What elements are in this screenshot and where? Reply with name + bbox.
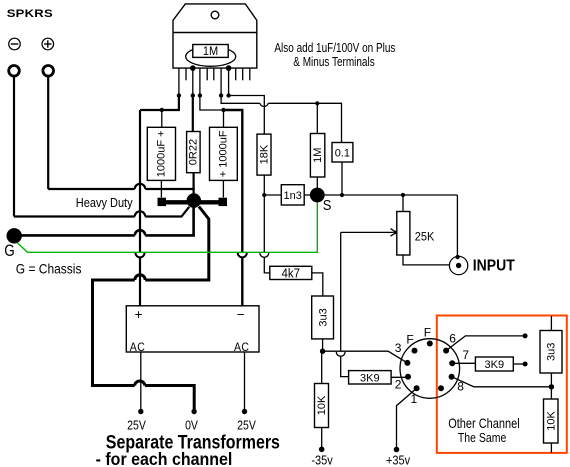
wire 3u3 right top stub — [550, 316, 552, 331]
svg-text:+: + — [135, 307, 143, 322]
terminal 3K9 right dot — [523, 362, 528, 367]
capacitor 1n3 box — [281, 185, 304, 205]
svg-text:3u3: 3u3 — [546, 343, 558, 361]
junction 1000uF tap — [160, 108, 164, 112]
svg-text:AC: AC — [130, 341, 145, 354]
green chassis wire — [17, 202, 317, 253]
socket pin right 7 — [449, 360, 455, 366]
svg-text:−: − — [237, 307, 245, 322]
wire 3u3 right bottom — [550, 373, 552, 399]
speaker plus polarity symbol — [42, 38, 54, 50]
pot wiper arrowhead — [391, 229, 397, 237]
svg-text:SPKRS: SPKRS — [7, 7, 53, 20]
svg-text:7: 7 — [462, 348, 469, 362]
socket pin upper-right 6 — [443, 348, 449, 354]
speaker minus polarity symbol — [9, 38, 21, 50]
svg-text:18K: 18K — [258, 144, 270, 164]
capacitor C2 +1000uF box — [210, 127, 238, 180]
wire pot bottom to input — [403, 255, 450, 265]
wire junction down to 4k7 — [264, 195, 270, 273]
terminal 25V left dot — [138, 409, 143, 414]
socket pin lower-left 2 — [405, 374, 411, 380]
svg-text:Other Channel: Other Channel — [448, 416, 519, 431]
svg-text:1M: 1M — [312, 148, 324, 163]
junction feedback left pin — [190, 65, 196, 71]
output node big junction — [187, 193, 202, 208]
IC pin 7 wire — [220, 68, 222, 95]
input jack top junction — [455, 255, 459, 259]
svg-text:Heavy Duty: Heavy Duty — [76, 195, 133, 210]
svg-text:3: 3 — [395, 341, 402, 355]
resistor 3K9 right box — [475, 357, 513, 371]
node S big junction — [310, 188, 325, 203]
socket pin upper-left F — [412, 348, 418, 354]
wire hop wiper line under grid wire — [336, 352, 345, 356]
wire spkr minus vertical — [13, 77, 15, 217]
socket pin left 3 — [404, 360, 410, 366]
bus bar right end block — [219, 198, 228, 206]
wire 10K bottom to -35v — [321, 428, 323, 450]
terminal 0V dot — [191, 409, 196, 414]
junction 0.1 bottom — [340, 193, 344, 197]
svg-text:S: S — [323, 196, 332, 213]
wire pin 7 to 3K9 right — [452, 362, 475, 364]
wire AC right down to 25V — [244, 352, 246, 412]
junction pin3 — [191, 93, 195, 97]
resistor R-feedback 1M box — [193, 45, 228, 58]
heavy duty bus bar — [159, 200, 227, 204]
input jack center dot — [456, 263, 461, 268]
capacitor 3u3 left box — [312, 296, 334, 339]
wire S node to input column — [317, 194, 457, 196]
junction pot top — [401, 193, 405, 197]
junction right column — [549, 384, 554, 389]
wire junction to 1n3 — [264, 194, 281, 196]
op-amp IC package outline — [173, 4, 257, 68]
wire +1000uF top tap — [223, 110, 225, 127]
wire hop 18K-4k7 under green — [260, 253, 269, 257]
junction pin7 — [219, 93, 223, 97]
svg-text:F: F — [424, 326, 431, 340]
wire 3u3 bottom to junction — [322, 339, 324, 351]
wire 1M top — [316, 103, 318, 133]
wire 0.1 bottom — [341, 162, 343, 195]
wire G chassis horizontal — [14, 234, 195, 237]
junction feedback right pin — [226, 65, 232, 71]
svg-text:& Minus Terminals: & Minus Terminals — [293, 56, 375, 69]
resistor 4k7 box — [270, 266, 312, 279]
resistor 3K9 left box — [349, 371, 392, 384]
wire output node down to G wire — [192, 207, 195, 236]
svg-text:3K9: 3K9 — [485, 359, 505, 371]
terminal 25V right dot — [242, 409, 247, 414]
wire 3K9 to pin 2 — [391, 376, 408, 378]
node G chassis dot — [7, 228, 22, 243]
svg-text:+ 1000uF: + 1000uF — [218, 130, 230, 177]
svg-text:3u3: 3u3 — [317, 308, 329, 326]
svg-text:10K: 10K — [545, 411, 557, 431]
svg-text:1M: 1M — [203, 46, 218, 59]
capacitor C1 1000uF box — [147, 127, 175, 180]
socket pin bottom-left 1 — [414, 385, 420, 391]
svg-text:0.1: 0.1 — [335, 147, 350, 159]
wire 10K right bottom stub — [550, 443, 552, 453]
wire hop ground bus over +rail — [135, 275, 145, 280]
resistor 10K left box — [315, 384, 329, 428]
wire spkr minus horizontal to output node — [14, 207, 189, 217]
wire hop G wire over +rail — [135, 230, 145, 235]
tube socket circle — [400, 339, 460, 399]
svg-text:-35v: -35v — [311, 453, 332, 467]
wire grid node down to 10K — [321, 351, 323, 383]
svg-text:Also add 1uF/100V on Plus: Also add 1uF/100V on Plus — [274, 42, 395, 55]
wire pin1 down-left to +rail corner — [140, 96, 179, 111]
junction pin4 — [198, 93, 202, 97]
terminal +35v dot — [394, 447, 400, 453]
wire 3K9 right out — [513, 363, 525, 365]
wire spkr plus horizontal to 0R22 bottom — [48, 188, 195, 190]
svg-text:3K9: 3K9 — [360, 372, 380, 384]
orange other-channel box — [437, 316, 567, 453]
wire pin 1 to +35v — [397, 388, 417, 449]
wire pin4 right jog — [200, 96, 224, 111]
svg-text:1000uF +: 1000uF + — [156, 130, 168, 177]
wire AC left down to 25V — [140, 352, 142, 412]
capacitor 3u3 right box — [540, 331, 562, 374]
svg-text:25K: 25K — [415, 230, 435, 244]
speaker plus terminal — [43, 66, 54, 77]
svg-text:- for each channel: - for each channel — [96, 449, 233, 467]
wire pin 6 out — [446, 336, 525, 351]
wire hop +rail under green — [136, 253, 145, 258]
wire 18K bottom to junction — [263, 175, 265, 195]
wire grid node to pin 3 — [323, 351, 408, 363]
svg-text:10K: 10K — [316, 395, 328, 415]
+rail vertical wire — [139, 110, 141, 306]
socket pin bottom-right — [438, 385, 444, 391]
wire output node diagonal down-right to ground bus — [93, 207, 209, 412]
IC pin 3 wire — [192, 68, 194, 95]
svg-text:0R22: 0R22 — [187, 139, 199, 165]
wire hop dip at 18K wire crossing — [260, 103, 268, 106]
junction pin1 — [177, 93, 181, 97]
wire 1000uF top tap — [161, 110, 163, 127]
wire 1n3 to S node — [304, 194, 312, 196]
wire wiper down to 3K9 — [341, 232, 349, 376]
IC pin 1 wire — [178, 68, 180, 95]
svg-text:AC: AC — [234, 341, 249, 354]
junction 1M top — [315, 101, 319, 105]
junction grid node — [320, 349, 325, 354]
connector INPUT jack — [449, 256, 467, 274]
wire 1M bottom to S node — [316, 177, 318, 195]
wire pin7 to 0.1 and 1M tops — [221, 96, 341, 143]
svg-text:2: 2 — [395, 378, 402, 392]
potentiometer 25K box — [397, 212, 410, 256]
wire pin 8 to right column — [452, 377, 552, 387]
bus bar left end block — [158, 198, 167, 206]
wire 0R22 bottom to output node — [193, 173, 195, 201]
IC pins short stubs — [186, 68, 250, 80]
transformer box — [126, 306, 259, 352]
svg-text:The Same: The Same — [458, 430, 507, 445]
IC mounting hole — [211, 11, 219, 19]
capacitor 0.1 box — [332, 143, 353, 163]
IC pin 8 wire — [228, 68, 230, 95]
svg-text:1: 1 — [411, 392, 418, 406]
feedback loop wire around 1M — [186, 47, 236, 67]
junction pin8 — [226, 93, 230, 97]
svg-text:F: F — [406, 333, 413, 347]
wire hop spkr plus over +rail — [135, 184, 145, 189]
terminal -35v dot — [319, 447, 325, 453]
terminal pin6 dot — [523, 333, 528, 338]
socket pin lower-right 8 — [449, 374, 455, 380]
svg-text:G: G — [4, 243, 15, 260]
speaker minus terminal — [9, 66, 20, 77]
wire 1000uF bottom — [160, 180, 162, 197]
svg-text:+35v: +35v — [386, 453, 410, 467]
wire hop ground bus over 25V wire — [135, 381, 145, 385]
junction +1000uF tap — [221, 108, 225, 112]
junction 18K bottom — [262, 193, 266, 197]
wire hop spkr minus over +rail — [135, 211, 145, 216]
wire spkr plus vertical — [47, 77, 49, 189]
wire pin8 to 18K top — [229, 96, 265, 135]
svg-text:1n3: 1n3 — [284, 190, 302, 202]
resistor 0R22 box — [187, 132, 201, 173]
wire pot top — [402, 195, 404, 212]
wire pin3 to 0R22 — [192, 96, 194, 132]
wire 4k7 to 3u3 — [312, 273, 323, 296]
minus rail thick wire to transformer — [224, 110, 243, 306]
svg-text:INPUT: INPUT — [473, 257, 516, 275]
IC tab separator line — [173, 32, 257, 34]
wire hop minus rail under green — [238, 253, 247, 258]
IC pin 4 wire — [199, 68, 201, 95]
socket pin top F — [427, 341, 433, 347]
svg-text:4k7: 4k7 — [282, 266, 301, 281]
pot wiper arrow wire — [341, 231, 394, 233]
wire input vertical — [456, 195, 458, 257]
resistor 18K box — [257, 134, 271, 175]
wire +1000uF bottom — [222, 180, 224, 197]
svg-text:G = Chassis: G = Chassis — [16, 261, 82, 277]
resistor 10K right box — [544, 399, 559, 443]
resistor 1M vertical box — [310, 134, 324, 178]
